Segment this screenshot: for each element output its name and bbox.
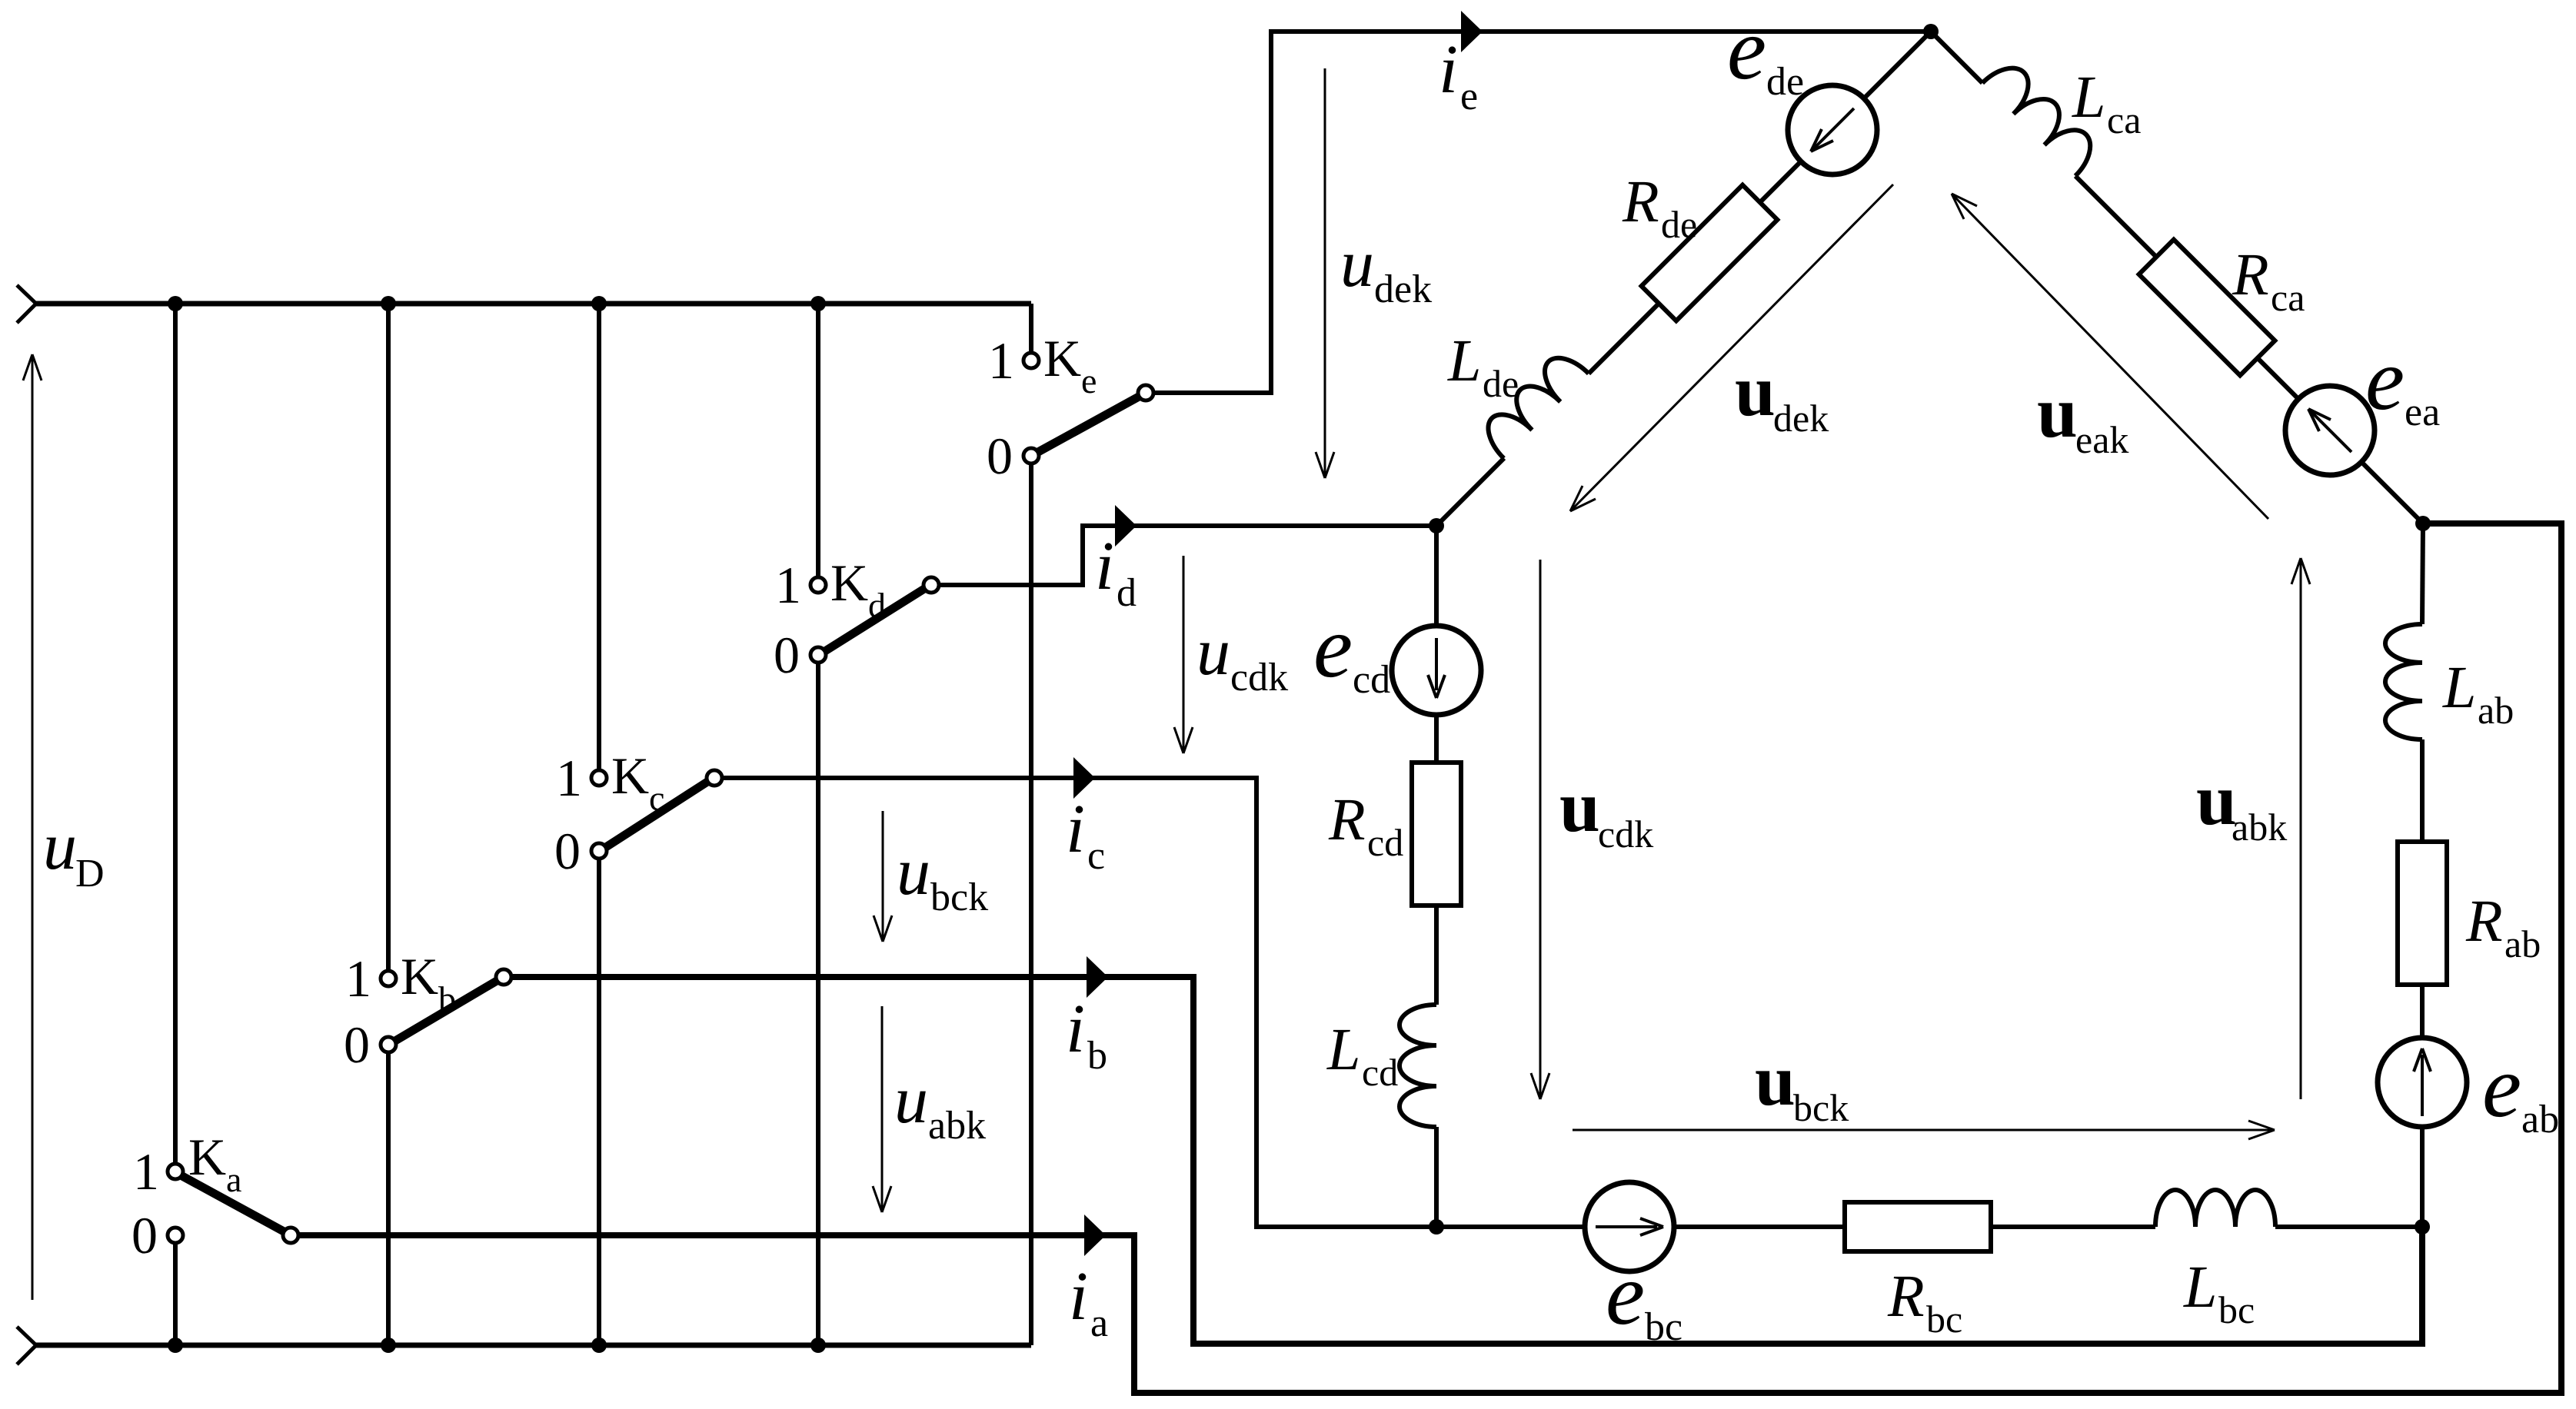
svg-text:dek: dek bbox=[1374, 268, 1432, 311]
inductor L_ab bbox=[2385, 624, 2422, 739]
svg-text:abk: abk bbox=[2232, 806, 2287, 849]
current arrow i_b bbox=[1087, 956, 1108, 998]
wire ab branch: node A to L_ab bbox=[2422, 523, 2423, 624]
svg-text:L: L bbox=[2183, 1253, 2217, 1320]
wire R_ab to e_ab bbox=[2420, 985, 2425, 1038]
resistor R_cd bbox=[1412, 763, 1461, 906]
wire K_d top column bbox=[816, 304, 820, 577]
node bottom bus / K_b bbox=[381, 1338, 396, 1353]
svg-text:K: K bbox=[1043, 329, 1081, 387]
bottom bus source chevron bbox=[17, 1327, 36, 1364]
switch K_a blade (closed to 1) bbox=[182, 1176, 284, 1231]
wire R_cd to L_cd bbox=[1434, 906, 1439, 1005]
svg-text:ab: ab bbox=[2504, 922, 2541, 965]
svg-text:ca: ca bbox=[2107, 98, 2141, 141]
svg-text:1: 1 bbox=[345, 949, 371, 1008]
svg-text:0: 0 bbox=[774, 626, 800, 684]
svg-text:u: u bbox=[43, 809, 77, 884]
wire e_de to R_de bbox=[1760, 161, 1801, 202]
svg-text:i: i bbox=[1439, 32, 1458, 108]
svg-text:R: R bbox=[1887, 1262, 1925, 1329]
emf source e_ea bbox=[2285, 386, 2375, 475]
emf source e_ab bbox=[2378, 1038, 2467, 1127]
resistor R_ca bbox=[2139, 240, 2275, 376]
emf source e_cd bbox=[1392, 626, 1481, 715]
svg-text:L: L bbox=[1447, 327, 1481, 394]
svg-text:K: K bbox=[830, 553, 868, 612]
node A (e_ea / ab branch / right edge) bbox=[2415, 516, 2431, 531]
wire bc branch: junction to e_bc bbox=[1436, 1225, 1585, 1229]
svg-text:0: 0 bbox=[987, 427, 1013, 485]
svg-text:bck: bck bbox=[930, 876, 988, 919]
wire R_bc to L_bc bbox=[1991, 1225, 2155, 1229]
svg-text:L: L bbox=[1326, 1015, 1360, 1082]
svg-text:a: a bbox=[226, 1160, 241, 1199]
inductor L_bc bbox=[2155, 1190, 2275, 1227]
resistor R_ab bbox=[2398, 842, 2447, 985]
switch K_a 1-contact bbox=[168, 1164, 183, 1179]
wire L_de to node D bbox=[1436, 458, 1504, 526]
svg-text:cdk: cdk bbox=[1230, 656, 1288, 700]
voltage arrow u_bck (long horizontal) bbox=[1573, 1121, 2275, 1139]
switch K_c pole contact bbox=[707, 770, 722, 786]
svg-text:i: i bbox=[1069, 1258, 1088, 1334]
svg-text:de: de bbox=[1766, 60, 1804, 104]
svg-text:d: d bbox=[1117, 571, 1137, 615]
svg-text:1: 1 bbox=[133, 1142, 159, 1201]
node bc-ab junction bbox=[2415, 1219, 2430, 1235]
switch K_e 1-contact bbox=[1023, 353, 1039, 368]
svg-text:1: 1 bbox=[988, 331, 1014, 390]
switch K_e pole contact bbox=[1138, 385, 1153, 400]
svg-text:e: e bbox=[1313, 598, 1353, 696]
switch K_d pole contact bbox=[924, 577, 939, 593]
voltage arrow u_dek (left vertical) bbox=[1316, 68, 1334, 478]
node cd-bc junction bbox=[1429, 1219, 1444, 1235]
voltage arrow u_dek (diagonal) bbox=[1570, 184, 1893, 511]
svg-text:L: L bbox=[2072, 63, 2105, 130]
svg-text:cd: cd bbox=[1367, 821, 1403, 864]
inductor L_cd bbox=[1399, 1005, 1436, 1127]
switch K_c 1-contact bbox=[591, 770, 607, 786]
wire R_ca to e_ea bbox=[2258, 358, 2298, 399]
svg-text:b: b bbox=[438, 979, 456, 1019]
wire R_de to L_de bbox=[1589, 304, 1659, 374]
emf source e_bc bbox=[1585, 1182, 1674, 1271]
svg-text:e: e bbox=[1606, 1245, 1645, 1343]
node top bus / K_a bbox=[168, 296, 183, 311]
svg-text:e: e bbox=[1081, 361, 1097, 400]
svg-text:0: 0 bbox=[554, 822, 581, 880]
node top bus / K_d bbox=[810, 296, 826, 311]
resistor R_de bbox=[1642, 185, 1778, 321]
wire e_ea to node A bbox=[2361, 462, 2423, 523]
svg-text:bck: bck bbox=[1793, 1086, 1849, 1129]
wire L_cd to bc junction bbox=[1434, 1127, 1439, 1227]
svg-text:cdk: cdk bbox=[1598, 813, 1653, 856]
svg-text:R: R bbox=[2232, 241, 2269, 307]
svg-text:cd: cd bbox=[1362, 1051, 1398, 1094]
svg-text:ab: ab bbox=[2521, 1098, 2559, 1141]
switch K_c 0-contact bbox=[591, 843, 607, 859]
svg-text:c: c bbox=[649, 779, 664, 818]
voltage arrow u_abk (left column) bbox=[873, 1006, 891, 1212]
svg-text:de: de bbox=[1483, 362, 1519, 405]
voltage arrow u_eak (diagonal) bbox=[1952, 194, 2268, 519]
wire K_e top column bbox=[1029, 304, 1033, 352]
svg-text:R: R bbox=[1622, 168, 1659, 234]
wire K_a 0-contact to bottom bus bbox=[173, 1244, 178, 1345]
switch K_b 1-contact bbox=[381, 971, 396, 986]
svg-text:K: K bbox=[401, 947, 438, 1005]
svg-text:u: u bbox=[1559, 766, 1600, 847]
svg-text:de: de bbox=[1661, 203, 1697, 246]
voltage arrow u_cdk (short) bbox=[1174, 556, 1193, 753]
wire top DC bus bbox=[35, 301, 1031, 307]
svg-text:R: R bbox=[2465, 887, 2503, 954]
svg-text:i: i bbox=[1095, 528, 1114, 604]
node D (d-phase / cd branch / L_de) bbox=[1429, 518, 1444, 533]
wire cd branch top: node D to e_cd bbox=[1434, 526, 1439, 626]
svg-text:u: u bbox=[2037, 371, 2078, 453]
svg-text:b: b bbox=[1087, 1034, 1107, 1078]
wire K_c 0-contact to bottom bus bbox=[597, 859, 601, 1345]
voltage arrow u_bck (left column) bbox=[874, 811, 892, 942]
svg-text:1: 1 bbox=[556, 749, 582, 807]
wire e_ab to bc junction bbox=[2420, 1127, 2425, 1227]
wire phase c: switch to elbow and run to cd junction bbox=[722, 778, 1436, 1227]
current arrow i_d bbox=[1115, 505, 1137, 547]
wire e_bc to R_bc bbox=[1674, 1225, 1845, 1229]
svg-text:i: i bbox=[1066, 991, 1085, 1067]
wire L_ab to R_ab bbox=[2420, 739, 2425, 842]
wire phase d: switch to step and run to node D bbox=[939, 526, 1436, 585]
wire phase b: switch to step and run to bc junction bbox=[511, 977, 2422, 1344]
wire phase e: switch to elbow and top run to node E bbox=[1153, 32, 1931, 393]
svg-text:L: L bbox=[2442, 653, 2476, 720]
resistor R_bc bbox=[1845, 1202, 1991, 1251]
wire K_e 0-contact to bottom bus bbox=[1029, 464, 1033, 1345]
switch K_b blade (at 0) bbox=[395, 981, 497, 1041]
svg-text:u: u bbox=[1755, 1039, 1796, 1121]
emf source e_de bbox=[1788, 85, 1877, 174]
wire K_b 0-contact to bottom bus bbox=[386, 1053, 391, 1345]
node bottom bus / K_a bbox=[168, 1338, 183, 1353]
wire K_a top column bbox=[173, 304, 178, 1163]
switch K_d blade (at 0) bbox=[825, 589, 924, 651]
svg-text:e: e bbox=[2482, 1038, 2521, 1135]
svg-text:a: a bbox=[1090, 1301, 1108, 1345]
svg-text:ea: ea bbox=[2405, 390, 2440, 434]
svg-text:0: 0 bbox=[131, 1206, 158, 1264]
wire bottom DC bus bbox=[35, 1343, 1031, 1348]
switch K_c blade (at 0) bbox=[606, 782, 707, 847]
svg-text:K: K bbox=[611, 746, 649, 805]
wire L_bc to ab junction bbox=[2275, 1225, 2422, 1229]
svg-text:0: 0 bbox=[344, 1015, 370, 1074]
voltage arrow u_abk (right vertical) bbox=[2291, 558, 2310, 1099]
current arrow i_a bbox=[1084, 1215, 1106, 1256]
node E (top of pentagon) bbox=[1923, 24, 1939, 39]
svg-text:i: i bbox=[1066, 791, 1085, 867]
svg-text:dek: dek bbox=[1773, 397, 1829, 440]
voltage arrow u_D bbox=[23, 354, 42, 1300]
svg-text:u: u bbox=[1340, 227, 1374, 301]
svg-text:e: e bbox=[1727, 0, 1766, 98]
svg-text:1: 1 bbox=[775, 556, 801, 614]
node bottom bus / K_d bbox=[810, 1338, 826, 1353]
svg-text:u: u bbox=[2196, 759, 2237, 840]
svg-text:e: e bbox=[2365, 331, 2405, 428]
svg-text:u: u bbox=[897, 835, 930, 909]
switch K_e 0-contact bbox=[1023, 448, 1039, 464]
current arrow i_c bbox=[1073, 757, 1095, 799]
svg-text:e: e bbox=[1460, 75, 1478, 118]
wire phase a: switch to i_a step and bottom run bbox=[298, 523, 2561, 1393]
top bus source chevron bbox=[17, 285, 36, 323]
svg-text:bc: bc bbox=[1926, 1298, 1962, 1341]
node top bus / K_b bbox=[381, 296, 396, 311]
wire pentagon right diagonal: node E to L_ca bbox=[1931, 32, 1982, 83]
wire K_b top column bbox=[386, 304, 391, 970]
inductor L_de bbox=[1478, 347, 1589, 458]
switch K_d 1-contact bbox=[810, 577, 826, 593]
switch K_a 0-contact bbox=[168, 1228, 183, 1243]
wire K_d 0-contact to bottom bus bbox=[816, 663, 820, 1345]
svg-text:abk: abk bbox=[928, 1104, 986, 1148]
switch K_b 0-contact bbox=[381, 1037, 396, 1052]
svg-text:eak: eak bbox=[2075, 418, 2128, 461]
switch K_d 0-contact bbox=[810, 647, 826, 663]
svg-text:u: u bbox=[1735, 350, 1776, 431]
switch K_b pole contact bbox=[496, 969, 511, 985]
switch K_a pole contact bbox=[283, 1228, 298, 1243]
svg-text:cd: cd bbox=[1353, 658, 1390, 702]
svg-text:D: D bbox=[75, 852, 105, 896]
svg-text:R: R bbox=[1328, 786, 1366, 852]
svg-text:d: d bbox=[868, 586, 886, 625]
svg-text:u: u bbox=[894, 1063, 928, 1138]
svg-text:K: K bbox=[188, 1128, 226, 1186]
svg-text:ab: ab bbox=[2478, 689, 2514, 732]
wire K_c top column bbox=[597, 304, 601, 769]
svg-text:bc: bc bbox=[2218, 1288, 2255, 1331]
voltage arrow u_cdk (long) bbox=[1531, 560, 1549, 1099]
svg-text:bc: bc bbox=[1645, 1305, 1682, 1349]
svg-text:c: c bbox=[1087, 834, 1105, 878]
wire e_cd to R_cd bbox=[1434, 715, 1439, 763]
inductor L_ca bbox=[1982, 57, 2102, 176]
wire pentagon left diagonal: node E to e_de bbox=[1864, 32, 1931, 98]
current arrow i_e bbox=[1461, 11, 1483, 52]
node bottom bus / K_c bbox=[591, 1338, 607, 1353]
svg-text:u: u bbox=[1196, 615, 1230, 690]
node top bus / K_c bbox=[591, 296, 607, 311]
svg-text:ca: ca bbox=[2271, 276, 2305, 319]
wire L_ca to R_ca bbox=[2075, 176, 2156, 257]
switch K_e blade (at 0) bbox=[1038, 397, 1139, 452]
